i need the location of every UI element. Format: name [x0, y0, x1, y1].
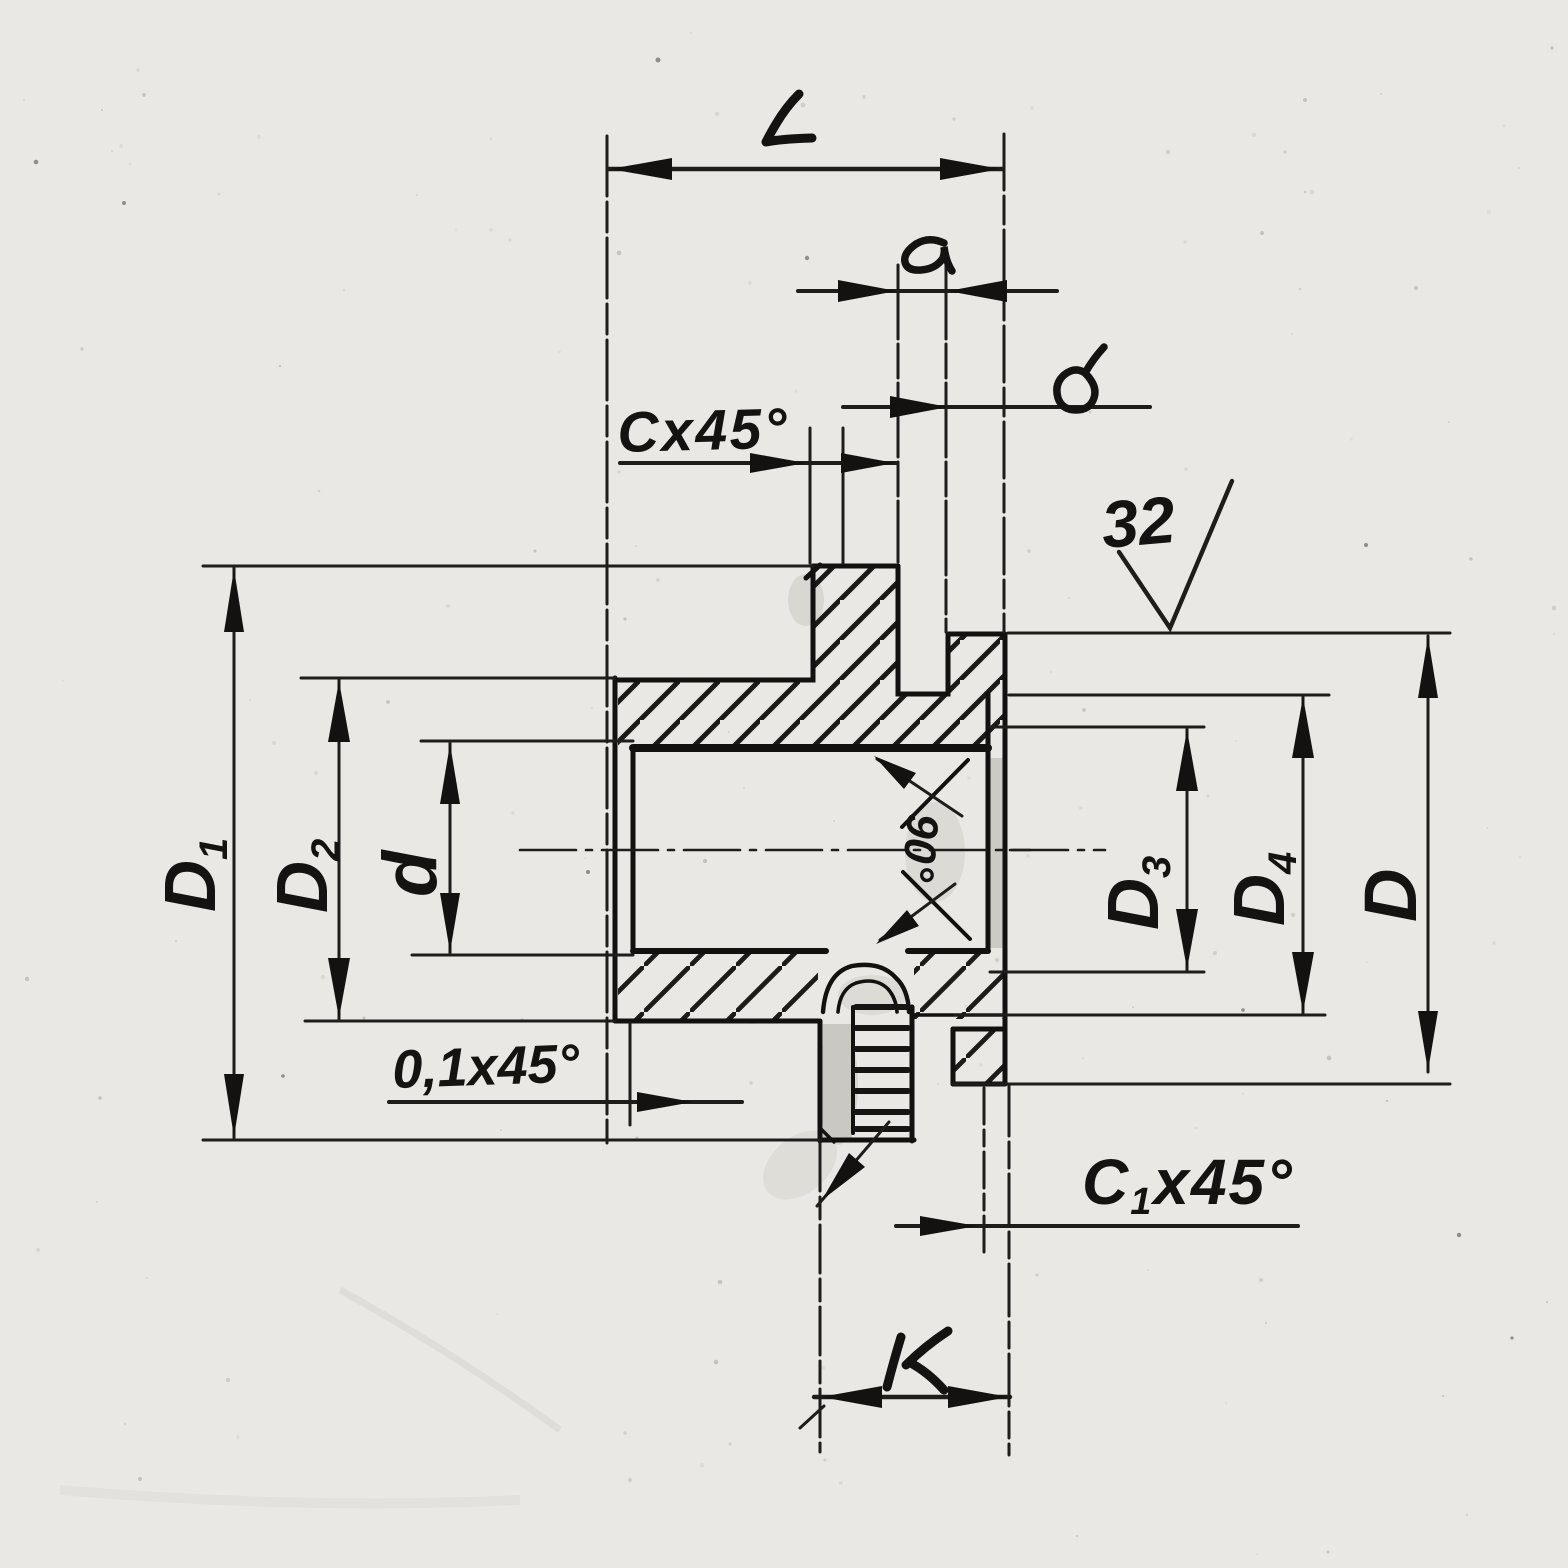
svg-text:90°: 90° [892, 811, 949, 884]
svg-text:0,1x45°: 0,1x45° [391, 1033, 580, 1099]
svg-text:32: 32 [1098, 482, 1178, 562]
svg-text:d: d [368, 849, 453, 897]
svg-text:C1x45°: C1x45° [1082, 1146, 1294, 1223]
svg-text:Cx45°: Cx45° [617, 397, 790, 465]
svg-text:D: D [1349, 869, 1432, 922]
